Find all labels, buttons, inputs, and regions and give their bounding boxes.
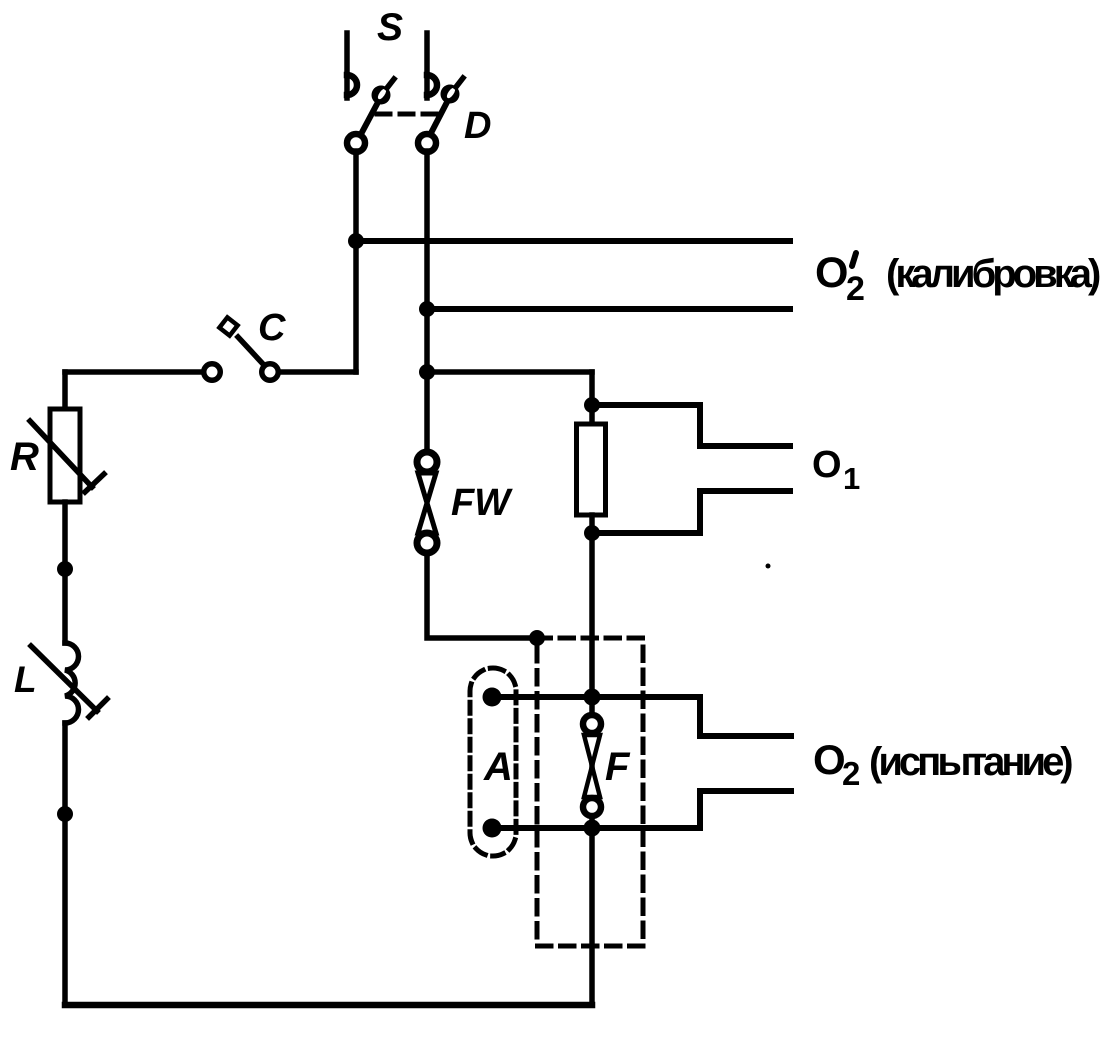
node junction O1 bottom xyxy=(584,525,600,541)
label O2 (испытание) xyxy=(813,736,1072,792)
test chamber (dashed box) xyxy=(537,638,643,946)
switch C handle square xyxy=(219,317,237,335)
svg-text:2: 2 xyxy=(846,270,864,308)
wire S pole2 down xyxy=(424,151,430,450)
node A bottom terminal xyxy=(483,819,502,838)
wire to furnace branch xyxy=(427,369,592,375)
svg-text:FW: FW xyxy=(451,482,513,524)
node A top terminal xyxy=(483,688,502,707)
svg-text:F: F xyxy=(605,745,631,789)
node junction lower left xyxy=(57,806,73,822)
inductor L coil xyxy=(65,643,79,723)
sensor A (dashed oval) xyxy=(470,668,516,856)
wire O2 calibration line1 xyxy=(356,238,790,244)
svg-text:(калибровка): (калибровка) xyxy=(886,252,1100,296)
node junction F bottom xyxy=(584,820,601,837)
resistor R adjust arrow xyxy=(30,421,104,492)
wire L down to bottom xyxy=(62,723,68,1005)
wire O2 test top lead xyxy=(492,697,791,736)
svg-text:(испытание): (испытание) xyxy=(869,740,1072,784)
label O2' (калибровка) xyxy=(815,249,1100,308)
wire down to R xyxy=(62,372,68,409)
wire O1 top lead xyxy=(592,405,790,446)
switch S pole2 lever xyxy=(430,78,463,135)
switch S pole2 terminal xyxy=(418,134,436,152)
wire S pole1 down xyxy=(353,151,359,372)
svg-text:A: A xyxy=(483,745,513,789)
switch C lever xyxy=(238,337,263,364)
wire FW down and right to chamber xyxy=(427,554,537,638)
wire switch C to S branch xyxy=(279,369,356,375)
node junction R-L xyxy=(57,561,73,577)
speck artifact xyxy=(766,564,771,569)
switch S pole1 terminal xyxy=(347,134,365,152)
wire furnace down through chamber xyxy=(589,515,595,1005)
wire O2 test bottom lead xyxy=(492,791,791,828)
wire R to L xyxy=(62,502,68,643)
node junction F top xyxy=(584,689,601,706)
wire O2 calibration line2 xyxy=(427,306,790,312)
wire left to switch C xyxy=(65,369,203,375)
wire furnace branch down xyxy=(589,372,595,424)
svg-text:D: D xyxy=(464,105,491,147)
resistor R body xyxy=(50,409,80,502)
svg-text:C: C xyxy=(258,307,286,349)
svg-text:L: L xyxy=(14,659,37,700)
furnace body (box) xyxy=(577,424,606,515)
node junction at chamber inlet xyxy=(529,630,545,646)
node junction O2cal line2 xyxy=(419,301,435,317)
node junction O1 top xyxy=(584,397,600,413)
svg-text:O: O xyxy=(813,736,844,783)
switch C right contact xyxy=(262,364,279,381)
label O1 xyxy=(812,444,860,496)
svg-text:1: 1 xyxy=(843,461,860,496)
switch S pole2 fixed contact xyxy=(427,33,437,98)
switch C left contact xyxy=(204,364,221,381)
wire O1 bottom lead xyxy=(592,491,790,533)
switch S gang link (dashed) xyxy=(377,112,441,117)
inductor L adjust arrow xyxy=(31,646,107,717)
svg-text:O: O xyxy=(812,444,840,486)
svg-text:2: 2 xyxy=(842,755,860,792)
valve FW symbol xyxy=(417,452,437,553)
valve F symbol xyxy=(583,715,601,816)
node junction at FW branch xyxy=(419,364,435,380)
svg-text:S: S xyxy=(377,6,403,49)
svg-text:R: R xyxy=(10,435,39,479)
switch S pole1 lever xyxy=(360,79,394,136)
node junction O2cal line1 xyxy=(348,233,364,249)
svg-text:O: O xyxy=(815,249,847,297)
switch S pole1 fixed contact xyxy=(347,33,357,98)
wire bottom return xyxy=(65,1002,592,1009)
